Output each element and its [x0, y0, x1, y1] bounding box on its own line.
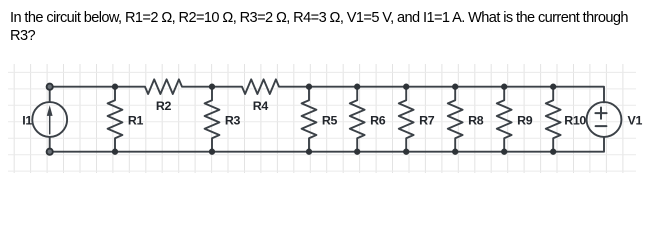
junction R10 top [550, 84, 556, 90]
junction R5 top [306, 84, 312, 90]
svg-text:R2: R2 [156, 99, 172, 113]
junction R8 bottom [452, 149, 458, 155]
svg-text:R9: R9 [517, 114, 533, 128]
junction R1 bottom [112, 149, 118, 155]
junction R3 bottom [209, 149, 215, 155]
svg-text:R3: R3 [225, 114, 241, 128]
node terminal I1 top [47, 84, 53, 90]
junction R7 bottom [403, 149, 409, 155]
svg-text:V1: V1 [628, 114, 643, 128]
resistor R3 [205, 87, 220, 152]
junction R6 top [354, 84, 360, 90]
resistor R10 [546, 87, 561, 152]
svg-text:R6: R6 [370, 114, 386, 128]
junction R10 bottom [550, 149, 556, 155]
wire bottom: I1 to V1 corner [50, 137, 604, 152]
wire top: I1 to R1 [50, 86, 115, 88]
junction R9 top [501, 84, 507, 90]
resistor R5 [302, 87, 317, 152]
resistor R8 [448, 87, 463, 152]
junction R6 bottom [354, 149, 360, 155]
resistor R7 [399, 87, 414, 152]
resistor R6 [350, 87, 365, 152]
svg-text:R5: R5 [322, 114, 338, 128]
wire top: R5 to V1 corner [309, 87, 604, 103]
resistor R4 [212, 79, 309, 94]
resistor R1 [108, 87, 123, 152]
resistor R9 [497, 87, 512, 152]
svg-text:R7: R7 [419, 114, 435, 128]
svg-text:R1: R1 [128, 114, 144, 128]
node terminal I1 bottom [47, 149, 53, 155]
junction R8 top [452, 84, 458, 90]
current source I1 [32, 87, 67, 152]
svg-text:R8: R8 [468, 114, 484, 128]
svg-text:R10: R10 [564, 114, 586, 128]
junction R7 top [403, 84, 409, 90]
junction R1 top [112, 84, 118, 90]
voltage source V1 [587, 102, 622, 137]
junction R3 top [209, 84, 215, 90]
junction R5 bottom [306, 149, 312, 155]
svg-text:I1: I1 [22, 114, 32, 128]
resistor R2 [115, 79, 212, 94]
junction R9 bottom [501, 149, 507, 155]
svg-text:R4: R4 [253, 99, 269, 113]
